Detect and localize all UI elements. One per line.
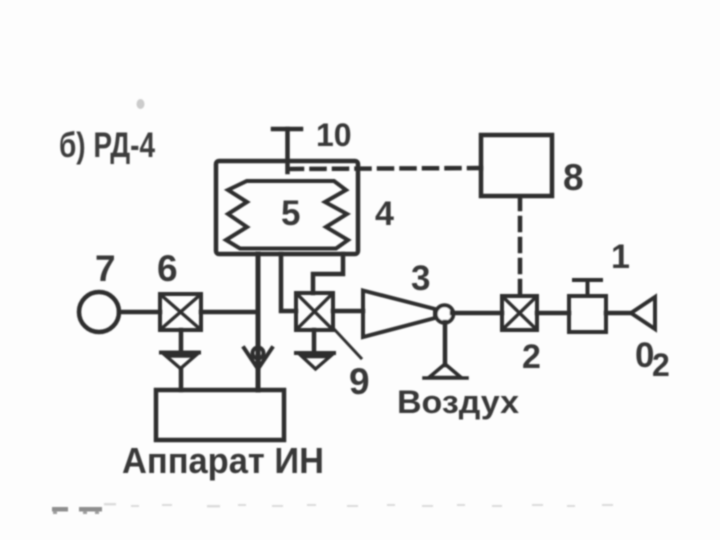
svg-text:2: 2 (522, 338, 541, 376)
ejector cone 3 (363, 291, 435, 338)
wire gauge7 to valve6 (119, 310, 160, 315)
wire funnel to apparatus (179, 369, 184, 390)
wire body4 down to apparatus (256, 254, 261, 390)
dashed link body4 to box8 (289, 168, 481, 169)
setscrew 10 (273, 129, 301, 172)
svg-text:Аппарат ИН: Аппарат ИН (122, 440, 324, 481)
check valve on wire (244, 348, 272, 370)
funnel below valve6 (161, 351, 199, 355)
svg-text:б) РД-4: б) РД-4 (59, 126, 155, 165)
wire body4 elbow to valve9 left (281, 254, 296, 311)
valve 9 (296, 293, 333, 330)
svg-text:6: 6 (157, 248, 178, 289)
svg-text:7: 7 (95, 248, 116, 289)
wire valve9 down (312, 330, 317, 352)
svg-text:8: 8 (563, 157, 584, 198)
svg-text:2: 2 (652, 347, 670, 383)
speck artifact (137, 99, 145, 109)
wire valve6 to node (201, 310, 258, 315)
valve 2 (502, 296, 537, 330)
vent below valve9 (296, 351, 334, 355)
svg-text:10: 10 (316, 117, 352, 153)
gauge 7 (79, 292, 119, 332)
wire node to valve2 (452, 311, 502, 316)
faint cropped text at bottom (52, 503, 613, 514)
node circle at ejector throat (436, 305, 454, 323)
wire valve9 to ejector3 (333, 309, 363, 314)
apparatus IN box (156, 390, 284, 440)
air vent triangle (429, 364, 461, 378)
wire body4 elbow to valve9 top (313, 254, 343, 293)
svg-text:5: 5 (281, 194, 300, 233)
wire valve2 to valve1 (537, 311, 569, 316)
valve 6 (160, 294, 201, 330)
svg-text:1: 1 (611, 238, 630, 276)
dashed link box8 to valve2 (518, 197, 523, 294)
shutoff valve 1 (569, 280, 606, 332)
bellows 5 (226, 181, 348, 249)
O2 inlet triangle (631, 297, 655, 329)
wire node down to air vent (443, 322, 448, 365)
svg-text:9: 9 (349, 361, 370, 402)
svg-text:3: 3 (411, 259, 430, 298)
regulator body 4 (216, 161, 358, 254)
leader line to label 9 (334, 329, 361, 358)
box 8 (481, 135, 552, 196)
svg-text:4: 4 (375, 195, 394, 233)
svg-text:Воздух: Воздух (397, 384, 519, 420)
wire valve1 to inlet (606, 311, 632, 316)
wire valve6 down (179, 330, 184, 353)
